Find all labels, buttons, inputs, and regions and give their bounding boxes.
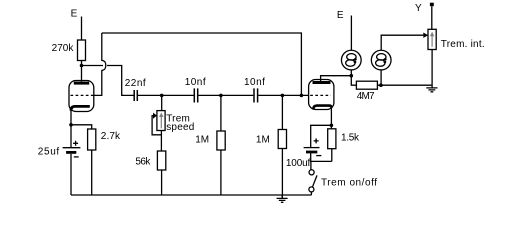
triode V2 cathode: [313, 106, 331, 110]
wire pot to 56k: [160, 131, 162, 152]
svg-text:10nf: 10nf: [185, 77, 206, 88]
triode V2 anode plate: [313, 81, 331, 84]
svg-text:1M: 1M: [195, 134, 209, 145]
label Trem. int.: [441, 39, 485, 50]
wire 25uf to ground rail: [70, 154, 72, 195]
wire junction to L2: [380, 70, 382, 85]
wire cathode node to 1.5k: [330, 125, 332, 129]
wire tap to 1M (first): [220, 95, 222, 131]
node V1 anode junction: [80, 64, 84, 68]
label 1.5k: [341, 133, 360, 144]
svg-text:Y: Y: [415, 3, 422, 14]
resistor 56k: [157, 151, 165, 170]
svg-text:Trem. int.: Trem. int.: [441, 39, 485, 50]
wire L1 to anode node: [350, 70, 352, 76]
resistor 1.5k: [328, 129, 336, 149]
node 1M (first) tap: [219, 94, 223, 98]
capacitor 100uf minus sign: [316, 155, 321, 157]
triode V1 cathode: [71, 106, 90, 110]
label 10nf (first): [185, 77, 206, 88]
triode V2 grid (dashed): [310, 94, 331, 96]
wire 1M (first) to ground rail: [220, 150, 222, 195]
label Trem speed: [166, 113, 194, 132]
wire 100uf and 1.5k to switch: [311, 149, 332, 170]
svg-text:10nf: 10nf: [244, 77, 265, 88]
wire E to 270k: [81, 17, 83, 41]
wire cathode node to 2.7k: [71, 125, 92, 129]
wire 2.7k to ground rail: [91, 150, 93, 195]
wire tap to Trem speed pot: [161, 95, 163, 110]
svg-text:1.5k: 1.5k: [341, 133, 360, 144]
wire feedback top line: [102, 33, 302, 95]
wire 10nf to V2 grid: [258, 94, 308, 96]
wire E to lamp L1: [350, 16, 352, 51]
pot wiper arrow (Trem int): [423, 33, 428, 38]
wire 1M (second) to ground: [281, 149, 283, 196]
label 25uf: [38, 146, 60, 157]
svg-text:E: E: [71, 8, 78, 19]
label Trem on/off: [321, 178, 377, 189]
node V1 cathode junction: [69, 123, 73, 127]
wire pot to ground: [431, 50, 433, 88]
wire 10nf to 10nf: [198, 94, 253, 96]
label 56k: [135, 156, 151, 167]
svg-text:22nf: 22nf: [125, 78, 146, 89]
wire L2 to pot wiper: [381, 35, 423, 50]
switch Trem on/off: [309, 170, 314, 175]
potentiometer Trem speed: [157, 111, 165, 131]
triode V1 anode plate: [74, 82, 89, 85]
svg-text:4M7: 4M7: [357, 91, 375, 102]
node E (right supply label): [337, 10, 344, 21]
label 100uf: [286, 158, 311, 169]
triode V1 envelope: [69, 81, 94, 112]
label 2.7k: [101, 131, 121, 142]
wire tap to 1M (second): [281, 95, 283, 129]
capacitor 100uf: [304, 147, 320, 149]
capacitor 25uf minus sign: [74, 156, 79, 158]
svg-text:speed: speed: [166, 122, 194, 133]
wire 270k to anode node: [81, 61, 83, 66]
wire ground rail: [71, 194, 312, 196]
wire switch to ground rail: [310, 192, 312, 195]
label 4M7: [357, 91, 375, 102]
wire 56k to ground rail: [161, 170, 163, 195]
wire Y to Trem int pot: [431, 6, 433, 29]
pot wiper arrow (Trem speed): [153, 113, 157, 119]
triode V2 envelope: [309, 80, 334, 110]
capacitor 25uf plus sign: [73, 141, 78, 146]
ground (right): [426, 88, 437, 92]
terminal Y square: [430, 3, 434, 6]
capacitor 10nf (first): [194, 88, 197, 102]
label 22nf: [125, 78, 146, 89]
wire cathode node to 25uf: [70, 125, 72, 147]
resistor 270k: [78, 40, 86, 61]
capacitor 22nf: [134, 90, 137, 101]
wire node to 4M7: [351, 76, 356, 86]
node Y (output label): [415, 3, 422, 14]
node 4M7 / L2 junction: [379, 83, 383, 87]
svg-text:E: E: [337, 10, 344, 21]
resistor 1M (second): [278, 130, 286, 149]
resistor 2.7k: [88, 129, 96, 150]
node V2 cathode junction: [330, 124, 334, 128]
resistor 4M7: [356, 81, 377, 89]
node 1M (second) tap: [281, 94, 285, 98]
wire 22nf to 10nf: [138, 94, 194, 96]
svg-text:100uf: 100uf: [286, 158, 311, 169]
resistor 1M (first): [217, 131, 225, 150]
ground (below 1M second): [281, 195, 283, 198]
wire V1 anode lead: [81, 66, 83, 82]
capacitor 100uf plus sign: [314, 138, 319, 143]
node V2 anode / lamp junction: [350, 74, 354, 78]
wire cathode node to 100uf: [311, 125, 332, 147]
node E (left HT supply label): [71, 8, 78, 19]
label 10nf (second): [244, 77, 265, 88]
node feedback / V2 grid junction: [300, 94, 304, 98]
svg-text:1M: 1M: [256, 134, 270, 145]
wire V2 anode to lamp node: [321, 76, 352, 81]
wire anode to coupling cap (with hop gap): [82, 66, 134, 96]
capacitor 25uf: [63, 147, 81, 149]
label 1M (first): [195, 134, 209, 145]
label 270k: [52, 43, 75, 54]
svg-text:270k: 270k: [52, 43, 75, 54]
wire feedback drop to V1 grid (hop over anode wire): [92, 33, 106, 95]
lamp L2: [371, 50, 391, 70]
triode V1 grid (dashed): [71, 94, 92, 96]
svg-text:Trem on/off: Trem on/off: [321, 178, 377, 189]
capacitor 10nf (second): [254, 88, 258, 102]
label 1M (second): [256, 134, 270, 145]
node Trem speed tap: [160, 94, 164, 98]
wire 4M7 to trem int pot bottom: [377, 84, 432, 86]
svg-text:56k: 56k: [135, 156, 151, 167]
wire V1 cathode to node: [70, 109, 72, 125]
ground (main rail): [277, 195, 288, 202]
potentiometer Trem. int.: [428, 29, 436, 49]
svg-text:2.7k: 2.7k: [101, 131, 121, 142]
svg-text:25uf: 25uf: [38, 146, 60, 157]
wire V2 cathode to node: [330, 108, 332, 126]
lamp L1: [341, 50, 361, 70]
